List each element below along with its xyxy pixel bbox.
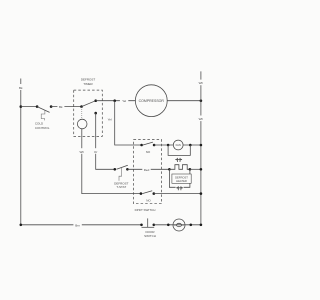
right rail Wh vertical bbox=[200, 71, 202, 224]
svg-text:Bk: Bk bbox=[59, 105, 63, 109]
wire: timer motor down (Wh) then right to DPDT lower pivot bbox=[82, 129, 141, 194]
wire: left rail Bk vertical bbox=[20, 79, 22, 225]
defrost heater element bbox=[168, 165, 191, 171]
junction: fan left bbox=[167, 144, 170, 147]
timer motor circle bbox=[77, 119, 87, 129]
wire: fan branch Yel drop and run to DPDT bbox=[115, 101, 142, 145]
svg-text:NO: NO bbox=[146, 150, 151, 154]
svg-text:Or: Or bbox=[94, 150, 97, 154]
svg-text:CONTROL: CONTROL bbox=[35, 126, 50, 130]
wire: timer contact to compressor bbox=[96, 100, 136, 102]
svg-text:Wh: Wh bbox=[199, 81, 204, 85]
cold control switch bbox=[36, 105, 53, 120]
timer motor link bbox=[81, 107, 83, 119]
wire: alternate contact down (Or) then right to t-stat bbox=[96, 113, 115, 169]
svg-text:Brn: Brn bbox=[75, 223, 80, 227]
wire: fan to right rail bbox=[183, 144, 202, 147]
wire label Wh mid right rail bbox=[197, 116, 204, 122]
light bulb bbox=[167, 219, 192, 231]
door switch (pushbutton) bbox=[140, 218, 155, 227]
label DEFROST TIMER bbox=[81, 78, 96, 87]
label DEFROST T-STAT bbox=[114, 181, 129, 189]
svg-text:TIMER: TIMER bbox=[83, 82, 93, 86]
svg-text:Yel: Yel bbox=[122, 99, 126, 103]
svg-text:DOOR: DOOR bbox=[146, 230, 156, 234]
wire: cold control to defrost timer, label Bk bbox=[51, 104, 81, 109]
wire label Brn bbox=[73, 222, 81, 227]
svg-text:Bk: Bk bbox=[19, 86, 23, 90]
svg-text:Wh: Wh bbox=[199, 117, 204, 121]
svg-text:COMPRESSOR: COMPRESSOR bbox=[139, 99, 165, 103]
defrost timer switch bbox=[80, 99, 97, 114]
svg-text:Wh: Wh bbox=[80, 150, 85, 154]
defrost heater label box bbox=[172, 174, 191, 183]
wire: heater to right rail bbox=[190, 168, 202, 171]
svg-text:T-STAT: T-STAT bbox=[116, 185, 126, 189]
connector symbol under heater bbox=[176, 186, 184, 190]
wire label Wh under timer bbox=[78, 148, 85, 154]
fan motor bbox=[173, 140, 183, 150]
wire label Yel beside drop bbox=[106, 116, 114, 122]
svg-text:FAN: FAN bbox=[176, 143, 181, 147]
wire: door switch to light bbox=[154, 224, 201, 226]
svg-text:HEATER: HEATER bbox=[176, 179, 187, 183]
junction: bottom right corner bbox=[200, 224, 203, 227]
svg-text:DEFROST: DEFROST bbox=[175, 175, 188, 179]
svg-text:NO: NO bbox=[146, 199, 151, 203]
svg-text:DEFROST: DEFROST bbox=[81, 78, 96, 82]
wire label Or bbox=[93, 148, 99, 154]
label COLD CONTROL bbox=[35, 122, 50, 131]
wire label Bk on left rail bbox=[18, 84, 25, 90]
wire: t-stat to heater, label Red bbox=[127, 167, 169, 172]
label DOOR SWITCH bbox=[144, 230, 156, 238]
compressor motor bbox=[135, 85, 167, 117]
svg-text:Red: Red bbox=[144, 168, 150, 172]
junction: fan branch on compressor line bbox=[113, 99, 116, 102]
DPDT lower switch (NO) bbox=[140, 191, 156, 203]
wire: main line to cold control bbox=[21, 106, 37, 108]
wire: DPDT lower contact to right rail bbox=[154, 192, 202, 195]
junction: main line at left rail bbox=[20, 105, 23, 108]
DPDT switch box (dashed) bbox=[134, 139, 162, 203]
svg-text:SWITCH: SWITCH bbox=[144, 234, 156, 238]
fan mounting bracket bbox=[168, 145, 190, 155]
wire: bottom rail Brn left segment bbox=[20, 224, 142, 227]
wire: DPDT top contact to fan bbox=[154, 144, 173, 146]
wire: compressor to right rail bbox=[167, 99, 202, 102]
DPDT top switch (NO) bbox=[140, 142, 155, 154]
svg-text:DPDT SWITCH: DPDT SWITCH bbox=[135, 208, 156, 212]
defrost t-stat switch bbox=[114, 165, 129, 181]
defrost timer box (dashed) bbox=[74, 90, 103, 136]
wire label Yel on compressor line bbox=[120, 98, 128, 103]
label DPDT SWITCH bbox=[135, 208, 156, 212]
wire label Wh top of right rail bbox=[197, 80, 204, 86]
svg-text:COLD: COLD bbox=[35, 122, 44, 126]
heater bracket bbox=[169, 169, 190, 187]
svg-text:Yel: Yel bbox=[108, 118, 112, 122]
connector symbol under fan bbox=[175, 158, 182, 162]
